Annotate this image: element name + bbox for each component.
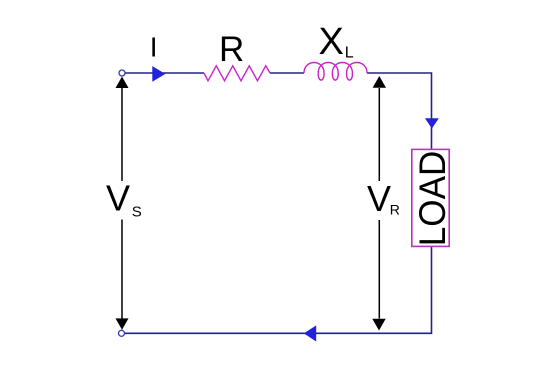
node terminal top-left — [119, 70, 125, 76]
svg-text:R: R — [390, 202, 400, 218]
current arrow bottom (blue, pointing left) — [304, 325, 316, 341]
Vs arrowhead down — [116, 318, 129, 329]
current arrow right branch (blue, pointing down) — [425, 118, 439, 128]
node terminal bottom-left — [119, 330, 125, 336]
Vs arrowhead up — [116, 77, 129, 89]
inductor XL — [304, 63, 367, 81]
Vs measurement line upper segment — [121, 87, 123, 181]
wire from inductor to top-right corner and down to LOAD — [367, 73, 432, 150]
current arrow I (blue, pointing right) — [152, 66, 165, 82]
wire from LOAD bottom to bottom-right corner and left to source — [125, 247, 432, 334]
LOAD box — [412, 149, 449, 246]
svg-text:LOAD: LOAD — [412, 151, 453, 247]
svg-text:L: L — [345, 44, 354, 61]
svg-text:V: V — [106, 177, 130, 218]
wire top from source terminal to resistor — [125, 72, 204, 74]
wire between resistor and inductor — [270, 72, 304, 74]
resistor R — [204, 66, 270, 81]
svg-text:V: V — [367, 178, 391, 219]
svg-text:I: I — [150, 32, 158, 63]
Vr arrowhead up — [373, 76, 386, 88]
Vr measurement line upper segment — [378, 88, 380, 181]
svg-text:X: X — [319, 21, 344, 63]
svg-text:R: R — [219, 30, 244, 69]
Vr measurement line lower segment — [378, 220, 380, 319]
Vs measurement line lower segment — [121, 220, 123, 319]
Vr arrowhead down — [372, 319, 385, 331]
svg-text:S: S — [132, 204, 142, 221]
